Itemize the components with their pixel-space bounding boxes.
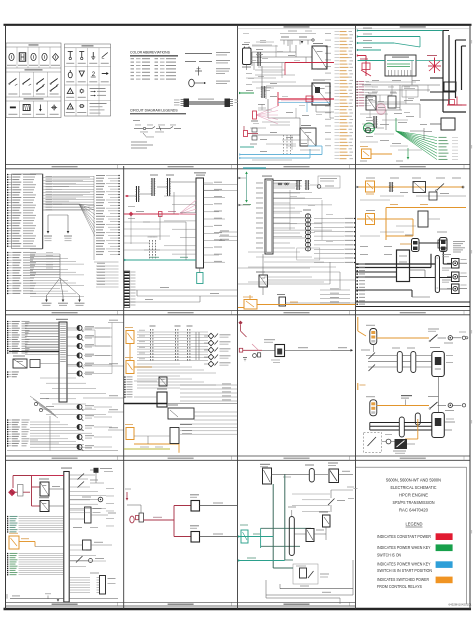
- svg-text:SWITCH IS ON: SWITCH IS ON: [377, 552, 401, 557]
- svg-text:INDICATES CONSTANT POWER: INDICATES CONSTANT POWER: [377, 534, 431, 539]
- svg-text:CIRCUIT DIAGRAM LEGENDS: CIRCUIT DIAGRAM LEGENDS: [130, 109, 178, 113]
- svg-text:HPCR ENGINE: HPCR ENGINE: [399, 493, 428, 498]
- svg-text:COLOR ABBREVIATIONS: COLOR ABBREVIATIONS: [130, 51, 171, 55]
- svg-text:SP3/PS TRANSMISSION: SP3/PS TRANSMISSION: [393, 500, 435, 505]
- svg-text:FROM CONTROL RELAYS: FROM CONTROL RELAYS: [377, 584, 422, 589]
- svg-text:LEGEND: LEGEND: [406, 522, 424, 527]
- svg-text:ELECTRICAL SCHEMATIC: ELECTRICAL SCHEMATIC: [391, 485, 437, 490]
- svg-text:64528N10420101: 64528N10420101: [449, 603, 472, 607]
- svg-text:5600N, 5600N-WT AND 5900N: 5600N, 5600N-WT AND 5900N: [386, 478, 441, 483]
- svg-text:INDICATES POWER WHEN KEY: INDICATES POWER WHEN KEY: [377, 561, 431, 566]
- svg-text:SWITCH IS IN START POSITION: SWITCH IS IN START POSITION: [377, 568, 432, 573]
- svg-text:INDICATES SWITCHED POWER: INDICATES SWITCHED POWER: [377, 577, 429, 582]
- svg-text:RAC 64470420: RAC 64470420: [399, 508, 429, 513]
- svg-text:INDICATES POWER WHEN KEY: INDICATES POWER WHEN KEY: [377, 545, 431, 550]
